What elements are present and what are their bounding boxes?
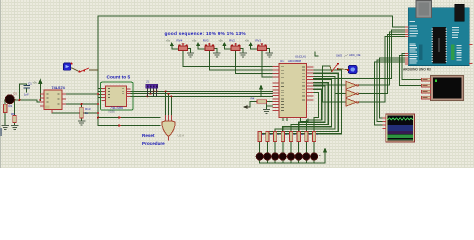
wire: pot RV1 terminals: [251, 46, 270, 53]
svg-text:good sequence: 10% 9% 1%: good sequence: 10% 9% 1% 13%: [165, 31, 247, 37]
switch SW2: [330, 63, 348, 72]
label: Reset Procedure: [142, 133, 165, 146]
wire: LED cathode rail to supply arrow: [260, 158, 325, 163]
svg-text:U2(B): U2(B): [108, 110, 115, 114]
wire: pot RV3 terminals: [198, 46, 217, 53]
capacitor C1: [24, 82, 33, 97]
labels +5v at pots: [166, 39, 250, 43]
wire: arduino pins to display: [379, 58, 405, 118]
power arrow: pot RV1 supply: [249, 42, 253, 46]
wire: ADC output staircase to LED resistors: [260, 70, 342, 134]
svg-text:Procedure: Procedure: [142, 141, 165, 146]
power jack: [455, 4, 465, 21]
usb connector: [416, 1, 432, 18]
ground: R6 ground: [11, 126, 19, 130]
potentiometer RV4: [177, 39, 188, 51]
power arrow: LED rail supply: [323, 148, 327, 159]
potentiometer RV3: [203, 39, 214, 51]
svg-text:+5v: +5v: [33, 81, 38, 85]
wire: R13 to 74LS74 pin: [66, 104, 98, 121]
wire: switch SW1 to loop: [71, 68, 80, 72]
label: ADC OE nets: [295, 53, 361, 59]
svg-text:RV3: RV3: [203, 39, 209, 43]
wire: R6 pulldown from node: [14, 100, 16, 125]
background grid: [0, 0, 474, 168]
svg-text:SW2: SW2: [336, 54, 343, 58]
annotation box: Count to 5: [101, 75, 134, 110]
svg-text:U1: U1: [280, 59, 284, 63]
junction dots: [14, 44, 267, 118]
virtual terminal: [422, 76, 464, 101]
svg-text:U2:A: U2:A: [178, 134, 185, 138]
labels for LED resistors: [262, 134, 318, 135]
board pins red stubs right: [469, 45, 472, 64]
inverter U3:B: [346, 90, 359, 98]
board pins red stubs left: [405, 27, 408, 64]
red net markers on horizontal nets: [119, 116, 122, 127]
ground: pot RV2 ground: [239, 53, 246, 57]
svg-text:Count to 5: Count to 5: [107, 75, 131, 81]
ground: pot RV4 ground: [187, 53, 194, 57]
svg-text:1k: 1k: [85, 111, 89, 115]
wire: 74LS90 left pins from vertical net: [98, 89, 102, 98]
potentiometer RV2: [229, 39, 240, 51]
wire: inverter2 input: [323, 66, 346, 102]
svg-text:RV4: RV4: [177, 39, 183, 43]
wire: pot RV2 terminals: [224, 46, 243, 53]
wire: Vref resistor node to ADC: [250, 90, 273, 110]
power arrow: pot RV4 supply: [170, 42, 174, 46]
wire: LED resistor to LED columns: [260, 142, 314, 153]
green power header: [451, 45, 455, 61]
wire: LED D1 cathode to R1: [4, 100, 6, 125]
logictoggle A (blue): [64, 63, 73, 71]
wire: 74LS74 clock input from toggle/switch net: [66, 93, 98, 95]
IC U1 ADC0808: [273, 59, 314, 118]
ground: pot RV3 ground: [213, 53, 220, 57]
wire: pot RV4 terminals: [172, 46, 191, 53]
inverter U3:A: [346, 81, 359, 89]
IC U? 74LS74: [40, 86, 66, 113]
resistor R1: [3, 104, 12, 113]
ground: pot RV1 ground: [266, 53, 273, 57]
logictoggle B (blue): [347, 66, 357, 74]
wire: pot RV4 wiper to ADC IN0: [183, 51, 273, 67]
wire: arduino TX to terminal RXD: [402, 54, 422, 80]
LED row D2-D9 (off): [256, 153, 318, 160]
svg-text:J1: J1: [146, 80, 149, 84]
left pin strip labels: [410, 21, 419, 64]
wire: horizontal net y=117.5: [99, 117, 160, 119]
svg-text:C1: C1: [28, 82, 32, 86]
wire: C1 bottom lead: [26, 88, 28, 92]
wire: vertical net x=98 down to 74LS90 pins and below: [98, 73, 160, 126]
power arrow: ADC vref supply: [259, 85, 263, 90]
connector J1 (purple): [146, 80, 158, 97]
ground: R13 ground: [78, 121, 86, 125]
svg-text:R4: R4: [251, 97, 255, 101]
wire: pot RV1 wiper to ADC IN3: [262, 51, 273, 77]
Arduino Uno board: [405, 1, 473, 66]
ground: ADC vref ground: [263, 110, 270, 114]
ground: D1/R1 ground: [2, 126, 10, 130]
svg-text:D1: D1: [14, 92, 18, 96]
IC U? 74LS90: [102, 86, 131, 110]
svg-text:RV1: RV1: [255, 39, 261, 43]
power arrow: pot RV2 supply: [222, 42, 226, 46]
potentiometer RV1: [255, 39, 266, 51]
svg-text:+5v: +5v: [166, 39, 171, 43]
graphic display: [383, 114, 415, 142]
svg-text:74LS90: 74LS90: [110, 106, 123, 110]
svg-text:ADC_OE: ADC_OE: [349, 53, 361, 57]
svg-text:U1(CLK): U1(CLK): [295, 55, 306, 59]
wire: big feedback loop from switch area along top to Arduino: [98, 16, 406, 73]
wire: ADC data bus to inverters and arduino verticals: [313, 30, 405, 79]
svg-text:+5v: +5v: [245, 39, 250, 43]
power arrow: pot RV3 supply: [196, 42, 200, 46]
svg-text:+5v: +5v: [192, 39, 197, 43]
svg-text:R6: R6: [11, 112, 15, 116]
terminal pins: [422, 78, 431, 99]
wire: arduino RX to terminal TXD: [400, 56, 422, 86]
svg-text:RV2: RV2: [229, 39, 235, 43]
wire: inverter1 input: [313, 85, 345, 94]
wire: SW2 net to ADC OE / arduino row: [315, 52, 330, 70]
svg-text:+5v: +5v: [218, 39, 223, 43]
power arrow: +5V near C1: [38, 79, 42, 101]
svg-text:ARDUINO UNO R3: ARDUINO UNO R3: [403, 67, 431, 71]
switch SW1: [79, 68, 99, 73]
svg-text:R1: R1: [9, 104, 13, 108]
right pin strip: [452, 27, 462, 61]
wire: OR gate inputs from bus: [166, 91, 172, 115]
wire: 74LS74 bottom pin to net: [52, 112, 98, 114]
labels for LEDs: [265, 155, 321, 156]
power arrow: vref left arrow: [243, 105, 250, 109]
LED D1 (left, off): [4, 95, 16, 104]
resistor R? vref horizontal: [251, 97, 267, 104]
wire: counter outputs bus to ADC: [128, 91, 273, 96]
inverter U3:C: [346, 98, 359, 106]
wire: C1 top to node via L: [20, 84, 27, 100]
resistor R6: [11, 112, 16, 123]
resistor R13: [80, 103, 91, 118]
svg-text:Reset: Reset: [142, 133, 155, 138]
wire: pot RV3 wiper to ADC IN1: [209, 51, 272, 71]
OR gate U2:A (reset) pointing down: [162, 115, 184, 141]
wire: pot RV2 wiper to ADC IN2: [236, 51, 273, 74]
LED resistors R5-R12: [258, 132, 316, 142]
wire: LED D1 node to 74LS74 input: [15, 100, 41, 102]
svg-text:74LS74: 74LS74: [52, 86, 66, 90]
display pins: [383, 118, 386, 129]
svg-text:ADC0808: ADC0808: [288, 59, 301, 63]
wire: ADC start/clock bottom stubs: [283, 118, 308, 122]
svg-text:1nF: 1nF: [24, 93, 29, 97]
atmega chip: [433, 27, 447, 64]
